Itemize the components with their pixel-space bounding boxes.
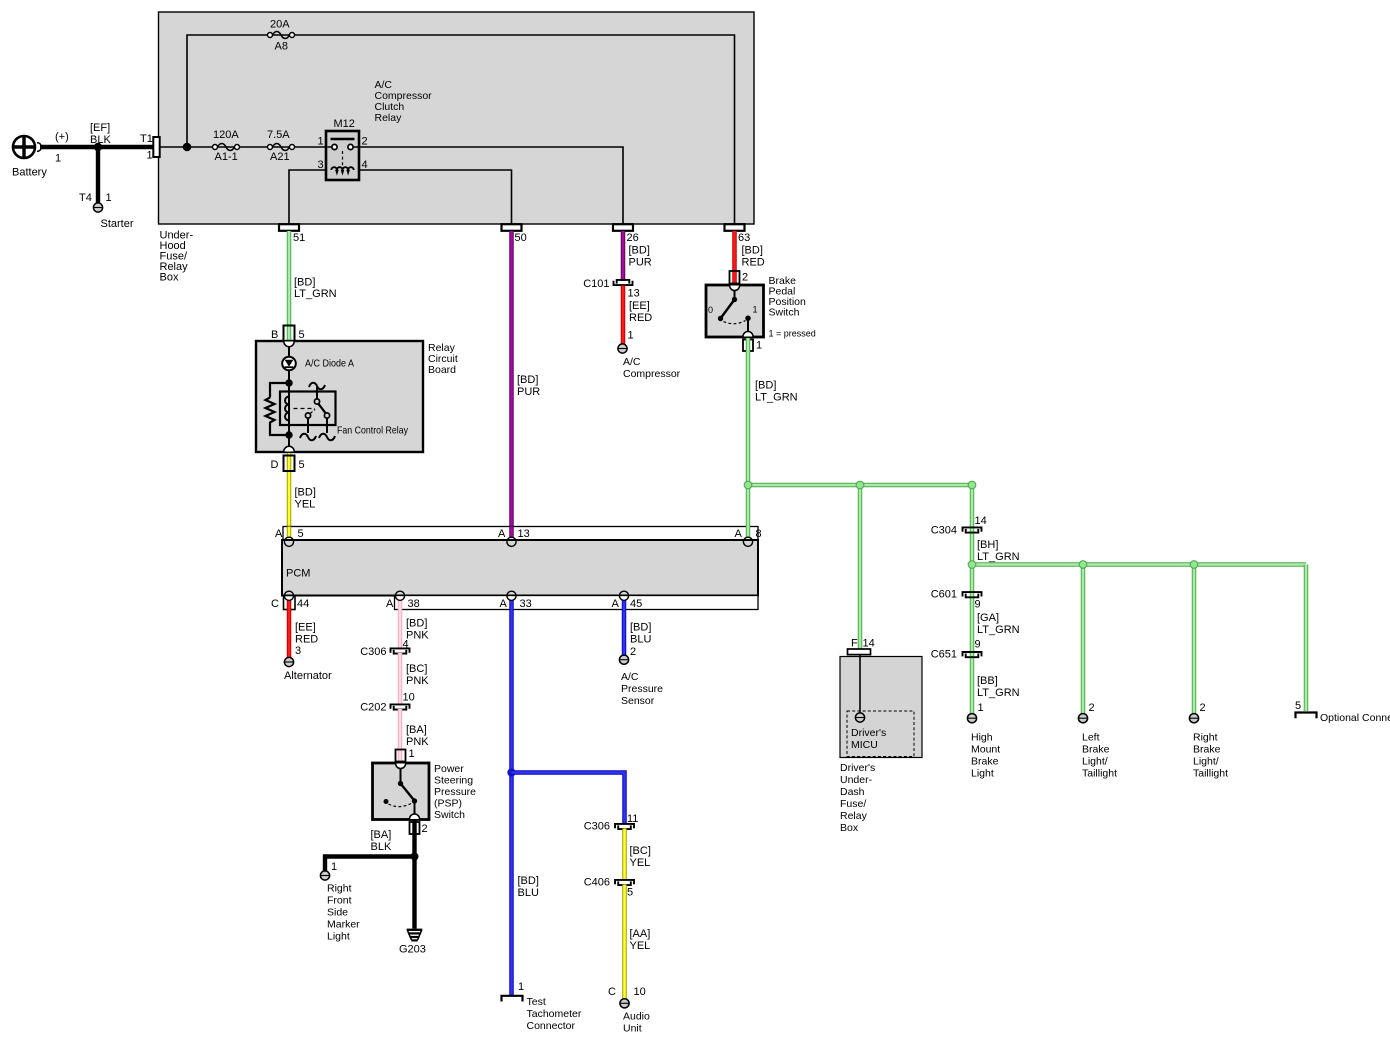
connector C406 pin 5 [584,877,634,899]
wire green to right brake light [1192,565,1197,716]
svg-text:A: A [498,528,506,540]
svg-text:Compressor: Compressor [623,368,681,380]
svg-text:2: 2 [1200,702,1206,714]
svg-text:Light/: Light/ [1082,756,1108,768]
svg-text:Sensor: Sensor [621,695,655,707]
svg-text:Left: Left [1082,732,1100,744]
svg-text:Connector: Connector [527,1020,576,1032]
wire 50 purple [BD] PUR to PCM A13 [512,231,541,538]
pin A 38 [386,591,420,610]
svg-text:[BD]: [BD] [755,380,776,392]
svg-text:33: 33 [520,598,532,610]
terminal A/C pressure sensor [619,655,663,707]
pin A 45 [612,591,643,610]
terminal high mount brake light [967,702,1000,780]
svg-text:A/C: A/C [623,356,641,368]
fuse 20A A8 [268,19,295,53]
svg-text:Power: Power [434,763,464,775]
PCM bottom connector band [395,596,759,610]
svg-text:A: A [500,598,508,610]
wire green down right column [970,485,975,715]
svg-text:A1-1: A1-1 [215,151,238,163]
svg-text:Light: Light [971,768,994,780]
svg-text:[BD]: [BD] [518,875,539,887]
svg-text:PNK: PNK [406,675,429,687]
pin A 13 [498,528,530,546]
svg-text:LT_GRN: LT_GRN [977,687,1020,699]
svg-text:Side: Side [327,907,348,919]
driver's under-dash fuse/relay box [840,657,922,758]
node junction above fan relay [285,379,292,386]
brake switch label [769,275,816,339]
wire brake pin1 green [BD] LT_GRN [748,338,798,538]
wire green horizontal 2 [972,562,1306,567]
wire relay pin4 to output 50 [359,170,512,224]
svg-text:Driver's: Driver's [840,762,875,774]
wire to ground [412,857,416,929]
wire D5 yellow [BD] YEL [289,453,316,538]
svg-text:38: 38 [408,598,420,610]
svg-text:[GA]: [GA] [977,612,999,624]
svg-text:Unit: Unit [623,1023,642,1035]
svg-text:1 = pressed: 1 = pressed [769,329,816,339]
connector C202 pin 10 [360,692,415,714]
svg-text:C406: C406 [584,877,610,889]
relay M12 A/C compressor clutch relay [318,118,368,180]
svg-text:[BD]: [BD] [294,277,315,289]
svg-text:Fuse/: Fuse/ [840,798,866,810]
svg-text:T1: T1 [140,133,153,145]
svg-text:51: 51 [293,232,305,244]
svg-text:[BD]: [BD] [742,245,763,257]
resistor loop [266,383,290,435]
svg-text:1: 1 [409,748,415,760]
wire A38 pink [BD] PNK [400,600,429,648]
wire [AA] YEL to audio unit [625,885,651,1000]
wire green to left brake light [1081,565,1086,716]
terminal audio unit C 10 [608,986,650,1035]
svg-text:[BA]: [BA] [406,724,427,736]
PSP switch contacts [384,769,418,820]
wire 51 green [BD] LT_GRN [289,231,337,340]
svg-text:Switch: Switch [434,809,465,821]
svg-text:5: 5 [1295,700,1301,712]
wire [BC] PNK [400,653,429,704]
svg-text:Test: Test [527,996,546,1008]
svg-text:Starter: Starter [101,218,134,230]
svg-text:A: A [612,598,620,610]
svg-text:44: 44 [297,598,309,610]
node blue junction [507,768,515,776]
svg-text:14: 14 [863,638,875,650]
svg-text:1: 1 [978,702,984,714]
svg-text:13: 13 [628,288,640,300]
svg-text:Driver's: Driver's [851,727,886,739]
PCM box [282,540,758,596]
starter terminal T4 [79,192,134,230]
wire [BC] YEL [625,829,651,881]
connector optional pin 5 [1295,700,1390,724]
pin semicircle B5 entry [284,342,294,347]
wire A33 blue [BD] BLU [512,600,539,995]
svg-text:C202: C202 [360,702,386,714]
svg-text:G203: G203 [399,944,426,956]
svg-text:C304: C304 [931,525,957,537]
connector B 5 [271,326,305,342]
squiggle top [309,383,325,390]
svg-text:A/C Diode A: A/C Diode A [305,358,354,370]
connector C306 pin 11 [584,813,639,833]
svg-text:Light: Light [327,931,350,943]
svg-text:9: 9 [975,639,981,651]
svg-text:A8: A8 [275,41,288,53]
svg-text:Pressure: Pressure [621,683,663,695]
svg-text:C: C [608,986,616,998]
terminal 26 [613,224,639,244]
svg-text:26: 26 [627,232,639,244]
svg-text:14: 14 [975,515,987,527]
svg-text:1: 1 [106,192,112,204]
svg-text:BLU: BLU [518,887,539,899]
svg-text:5: 5 [627,887,633,899]
wire [BB] LT_GRN [977,675,1020,699]
svg-text:C601: C601 [931,589,957,601]
pin semicircle PSP exit [410,814,420,819]
wire purple stub through band [509,527,514,539]
svg-text:Right: Right [1193,732,1218,744]
ground G203 [399,930,426,956]
svg-text:[BH]: [BH] [977,539,998,551]
wire [BA] PNK to PSP [400,709,429,761]
svg-text:[BC]: [BC] [630,845,651,857]
svg-text:YEL: YEL [295,499,316,511]
wire green horizontal main [748,483,972,488]
connector D 5 [271,456,305,472]
PCM top connector band [283,527,758,541]
pin A 5 [275,528,304,546]
svg-text:[BD]: [BD] [295,487,316,499]
svg-text:Light/: Light/ [1193,756,1219,768]
pin semicircle D5 exit [284,446,294,451]
svg-text:A21: A21 [270,151,290,163]
svg-text:10: 10 [634,986,646,998]
svg-text:9: 9 [975,599,981,611]
PSP switch box [373,763,430,820]
wire 20A branch [187,35,735,224]
svg-text:[BB]: [BB] [977,675,998,687]
svg-text:A: A [735,528,743,540]
svg-text:63: 63 [738,232,750,244]
pin semicircle brake entry [730,286,740,291]
driver's box label [840,762,875,834]
terminal MICU [855,713,864,722]
svg-text:PNK: PNK [406,630,429,642]
pin A 8 [735,528,762,546]
pin semicircle brake exit [743,332,753,337]
svg-text:MICU: MICU [851,739,878,751]
svg-text:A: A [386,598,394,610]
svg-text:1: 1 [628,330,634,342]
svg-text:7.5A: 7.5A [267,129,290,141]
svg-text:3: 3 [295,645,301,657]
svg-text:120A: 120A [213,129,239,141]
connector brake switch pin 2 [730,271,749,284]
svg-text:1: 1 [518,981,524,993]
wire C44 red [EE] RED to alternator [289,600,318,658]
svg-text:PCM: PCM [286,568,310,580]
svg-text:[AA]: [AA] [630,928,651,940]
node junction battery/starter [94,143,102,151]
svg-text:LT_GRN: LT_GRN [294,288,337,300]
fuse 7.5A A21 [267,129,295,163]
wire PSP [BA] BLK [371,820,415,857]
node green junction MICU [856,481,864,489]
svg-text:High: High [971,732,993,744]
svg-text:2: 2 [630,646,636,658]
wire [GA] LT_GRN [977,612,1020,636]
wire to starter [96,147,100,203]
svg-text:Relay: Relay [375,112,403,124]
connector PSP pin 2 [410,822,428,835]
svg-text:(PSP): (PSP) [434,798,462,810]
terminal 50 [502,224,527,244]
svg-text:[EE]: [EE] [629,300,650,312]
svg-text:BLK: BLK [371,841,392,853]
svg-text:Alternator: Alternator [284,670,332,682]
node black junction [411,853,419,861]
svg-text:1: 1 [55,153,61,165]
fan relay switch [305,387,329,433]
driver's MICU dashed box [847,711,914,757]
svg-text:C651: C651 [931,649,957,661]
svg-text:Brake: Brake [971,756,999,768]
wire 26 purple to C101 [623,231,652,281]
fuse 120A A1-1 [213,129,240,163]
svg-text:1: 1 [753,305,758,315]
pin C 44 [271,591,309,610]
svg-text:Board: Board [428,364,456,376]
svg-text:D: D [271,459,279,471]
fan relay coil [285,397,289,421]
svg-text:10: 10 [403,692,415,704]
svg-text:T4: T4 [79,192,92,204]
terminal left brake light/taillight [1078,702,1117,780]
brake switch contacts [708,291,758,337]
svg-text:A/C: A/C [621,671,639,683]
wire B5 to diode [288,347,290,357]
svg-text:YEL: YEL [630,940,651,952]
node bus junction [183,143,192,152]
svg-text:C306: C306 [360,646,386,658]
connector C101 pin 13 [614,280,633,285]
battery [12,131,69,179]
wire to marker light [325,857,415,872]
svg-text:Taillight: Taillight [1193,768,1228,780]
svg-text:Front: Front [327,895,352,907]
svg-text:[BD]: [BD] [517,374,538,386]
svg-text:C306: C306 [584,821,610,833]
wire relay pin3 to output 51 [289,170,326,224]
wire [BH] LT_GRN [977,539,1020,563]
svg-text:20A: 20A [270,19,290,31]
pin semicircle PSP entry [396,764,406,769]
wire blue branch to C306 [512,773,625,825]
squiggle bottom left [300,434,316,441]
wire green to optional connector [1304,565,1309,712]
svg-text:Mount: Mount [971,744,1000,756]
svg-text:BLU: BLU [630,634,651,646]
svg-text:Pressure: Pressure [434,786,476,798]
svg-text:Marker: Marker [327,919,360,931]
svg-text:[BD]: [BD] [406,618,427,630]
svg-text:Audio: Audio [623,1011,650,1023]
svg-text:Brake: Brake [1082,744,1110,756]
svg-text:(+): (+) [55,131,69,143]
svg-text:A: A [275,528,283,540]
under-hood box label [160,230,194,284]
svg-text:Box: Box [160,272,179,284]
svg-text:1: 1 [331,861,337,873]
svg-text:Taillight: Taillight [1082,768,1117,780]
svg-text:Battery: Battery [12,167,47,179]
svg-text:PNK: PNK [406,736,429,748]
fan relay dashed link [294,408,316,410]
node green junction 2 [968,561,976,569]
PSP switch label [434,763,476,821]
svg-text:2: 2 [362,136,368,148]
relay circuit board box [256,341,423,452]
svg-text:Tachometer: Tachometer [527,1008,582,1020]
svg-text:Optional Connector: Optional Connector [1320,712,1390,724]
squiggle bottom right [319,434,335,441]
svg-text:LT_GRN: LT_GRN [977,624,1020,636]
svg-text:Dash: Dash [840,786,865,798]
svg-text:[BD]: [BD] [629,245,650,257]
A/C Compressor Clutch Relay label [375,79,433,124]
svg-text:RED: RED [629,312,652,324]
connector brake switch pin 1 [743,340,762,352]
svg-text:Under-: Under- [840,774,873,786]
svg-text:Box: Box [840,822,859,834]
wire A45 blue [BD] BLU to pressure sensor [624,600,651,658]
wire diode down through coil [288,370,290,452]
connector C 44 box [284,596,296,610]
wire inside driver's box [859,655,861,714]
node green corner [968,481,976,489]
svg-text:[EE]: [EE] [295,622,316,634]
wire [EE] RED to A/C compressor [623,286,652,345]
terminal A/C compressor [618,344,681,380]
wire 63 red [BD] RED [735,231,765,284]
connector T1 [140,133,160,162]
svg-text:PUR: PUR [629,257,652,269]
svg-text:LT_GRN: LT_GRN [977,551,1020,563]
svg-text:5: 5 [299,459,305,471]
svg-text:Brake: Brake [1193,744,1221,756]
wire main bus inside box [160,146,326,148]
pin A 33 [500,591,532,610]
fan control relay box [280,392,336,426]
connector F 14 [848,638,875,655]
diode A/C Diode A [282,357,354,371]
svg-text:1: 1 [318,136,324,148]
connector C306 pin 4 [360,639,409,659]
svg-text:50: 50 [515,232,527,244]
node green junction left brake [1079,561,1087,569]
connector C304 pin 14 [931,515,987,537]
svg-text:Right: Right [327,883,352,895]
svg-text:C: C [271,598,279,610]
svg-text:Fan Control Relay: Fan Control Relay [337,425,409,437]
wire green drop to driver's box F14 [858,485,863,649]
connector PSP pin 1 [396,748,415,762]
svg-text:5: 5 [298,528,304,540]
svg-text:1: 1 [756,340,762,352]
svg-text:0: 0 [708,305,713,315]
svg-text:PUR: PUR [517,386,540,398]
svg-text:[BC]: [BC] [406,663,427,675]
svg-text:2: 2 [422,823,428,835]
node green junction left [744,481,752,489]
svg-text:RED: RED [295,634,318,646]
svg-text:LT_GRN: LT_GRN [755,392,798,404]
svg-text:[BD]: [BD] [630,622,651,634]
node green junction right brake [1190,561,1198,569]
connector test tachometer [502,981,582,1032]
svg-text:C101: C101 [583,278,609,290]
svg-text:M12: M12 [334,118,355,130]
svg-text:1: 1 [147,150,153,162]
terminal 63 [725,224,751,244]
connector C601 pin 9 [931,589,982,611]
svg-text:YEL: YEL [630,857,651,869]
terminal alternator [284,657,332,682]
svg-text:8: 8 [756,528,762,540]
svg-text:13: 13 [518,528,530,540]
svg-text:RED: RED [742,257,765,269]
terminal right brake light/taillight [1189,702,1228,780]
terminal right front side marker light [320,861,360,943]
svg-text:45: 45 [630,598,642,610]
connector C651 pin 9 [931,639,982,661]
terminal 51 [279,224,305,244]
svg-text:B: B [271,329,278,341]
node junction below fan relay [285,431,292,438]
under-hood fuse/relay box [159,12,755,224]
relay circuit board label [428,342,458,376]
svg-text:Switch: Switch [769,307,800,319]
svg-text:[EF]: [EF] [90,122,110,134]
svg-text:[BA]: [BA] [371,829,392,841]
svg-text:11: 11 [627,813,638,825]
wire relay pin2 to output 26 [359,147,623,224]
svg-text:2: 2 [742,272,748,284]
svg-text:Steering: Steering [434,775,473,787]
wire yellow stub through band [287,527,292,539]
brake pedal position switch box [706,285,764,337]
svg-text:2: 2 [1089,702,1095,714]
svg-text:4: 4 [403,639,409,651]
svg-text:F: F [851,638,858,650]
svg-text:Relay: Relay [840,810,868,822]
wire battery to T1 [EF] BLK [40,122,154,147]
svg-text:5: 5 [299,329,305,341]
